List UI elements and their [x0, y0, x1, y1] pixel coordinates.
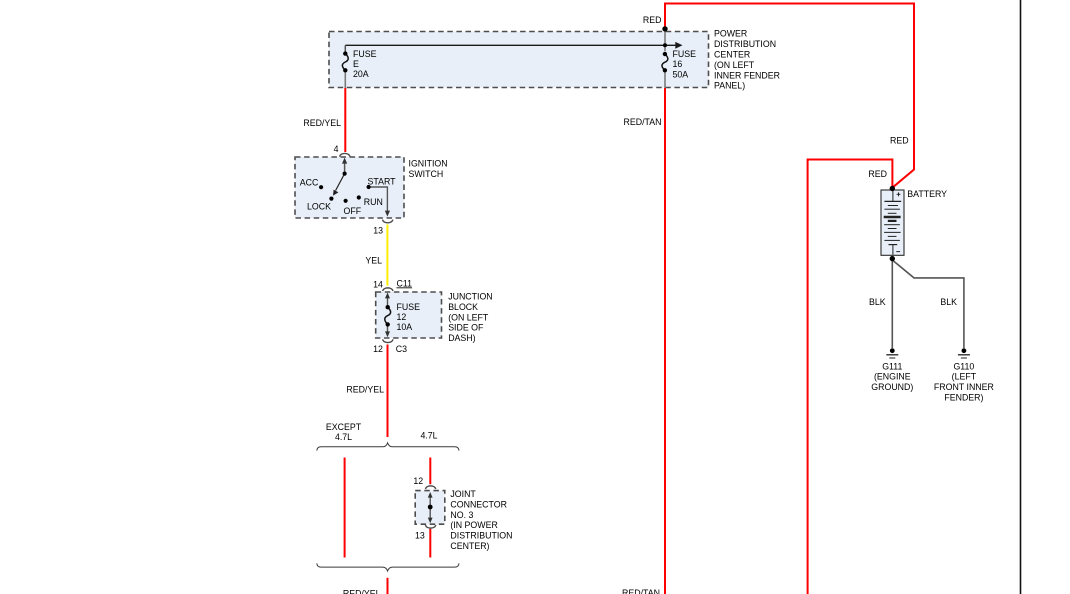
- svg-text:12: 12: [413, 476, 423, 486]
- svg-text:13: 13: [373, 225, 383, 235]
- svg-text:IGNITION: IGNITION: [409, 159, 448, 169]
- svg-text:YEL: YEL: [365, 255, 382, 265]
- svg-text:(IN POWER: (IN POWER: [450, 520, 497, 530]
- svg-text:BLK: BLK: [869, 297, 886, 307]
- svg-text:RED: RED: [868, 169, 887, 179]
- svg-text:FUSE: FUSE: [673, 49, 697, 59]
- svg-text:POWER: POWER: [714, 29, 747, 39]
- svg-text:RED: RED: [890, 136, 909, 146]
- svg-text:SWITCH: SWITCH: [409, 169, 444, 179]
- svg-text:CENTER): CENTER): [450, 541, 489, 551]
- svg-text:E: E: [353, 59, 359, 69]
- svg-text:(ENGINE: (ENGINE: [874, 372, 911, 382]
- svg-text:10A: 10A: [397, 322, 413, 332]
- svg-text:BLK: BLK: [940, 297, 957, 307]
- svg-text:SIDE OF: SIDE OF: [448, 323, 484, 333]
- svg-text:RUN: RUN: [364, 197, 383, 207]
- svg-text:INNER FENDER: INNER FENDER: [714, 70, 780, 80]
- svg-text:EXCEPT: EXCEPT: [326, 422, 362, 432]
- svg-text:FENDER): FENDER): [944, 393, 983, 403]
- svg-text:RED/YEL: RED/YEL: [303, 118, 341, 128]
- svg-text:G110: G110: [953, 361, 974, 371]
- svg-text:FRONT INNER: FRONT INNER: [934, 382, 994, 392]
- svg-text:CONNECTOR: CONNECTOR: [450, 499, 507, 509]
- svg-text:4.7L: 4.7L: [420, 431, 437, 441]
- svg-text:4: 4: [334, 144, 339, 154]
- svg-text:RED/TAN: RED/TAN: [624, 117, 662, 127]
- svg-text:FUSE: FUSE: [397, 302, 421, 312]
- svg-text:PANEL): PANEL): [714, 81, 745, 91]
- svg-text:14: 14: [373, 280, 383, 290]
- svg-text:13: 13: [415, 531, 425, 541]
- svg-text:DISTRIBUTION: DISTRIBUTION: [714, 39, 776, 49]
- svg-text:RED/YEL: RED/YEL: [343, 589, 381, 594]
- svg-text:BATTERY: BATTERY: [907, 189, 947, 199]
- svg-text:LOCK: LOCK: [307, 202, 331, 212]
- svg-text:12: 12: [397, 312, 407, 322]
- svg-text:16: 16: [673, 59, 683, 69]
- svg-text:NO. 3: NO. 3: [450, 510, 473, 520]
- svg-text:DISTRIBUTION: DISTRIBUTION: [450, 531, 512, 541]
- svg-text:JOINT: JOINT: [450, 489, 476, 499]
- svg-text:50A: 50A: [673, 69, 689, 79]
- svg-text:ACC: ACC: [300, 178, 319, 188]
- svg-text:(LEFT: (LEFT: [952, 372, 977, 382]
- svg-text:C3: C3: [396, 344, 407, 354]
- svg-text:(ON LEFT: (ON LEFT: [448, 312, 489, 322]
- svg-text:20A: 20A: [353, 69, 369, 79]
- svg-text:(ON LEFT: (ON LEFT: [714, 60, 755, 70]
- svg-text:RED: RED: [643, 15, 662, 25]
- svg-text:RED/YEL: RED/YEL: [346, 385, 384, 395]
- svg-text:OFF: OFF: [344, 206, 362, 216]
- svg-text:C11: C11: [397, 278, 413, 288]
- svg-text:BLOCK: BLOCK: [448, 302, 478, 312]
- svg-text:START: START: [368, 176, 397, 186]
- svg-text:JUNCTION: JUNCTION: [448, 292, 492, 302]
- svg-text:4.7L: 4.7L: [335, 432, 352, 442]
- svg-text:12: 12: [373, 344, 383, 354]
- svg-text:DASH): DASH): [448, 333, 475, 343]
- svg-text:GROUND): GROUND): [871, 382, 913, 392]
- svg-text:RED/TAN: RED/TAN: [622, 588, 660, 594]
- svg-text:G111: G111: [882, 361, 902, 371]
- svg-text:FUSE: FUSE: [353, 49, 377, 59]
- svg-text:CENTER: CENTER: [714, 50, 750, 60]
